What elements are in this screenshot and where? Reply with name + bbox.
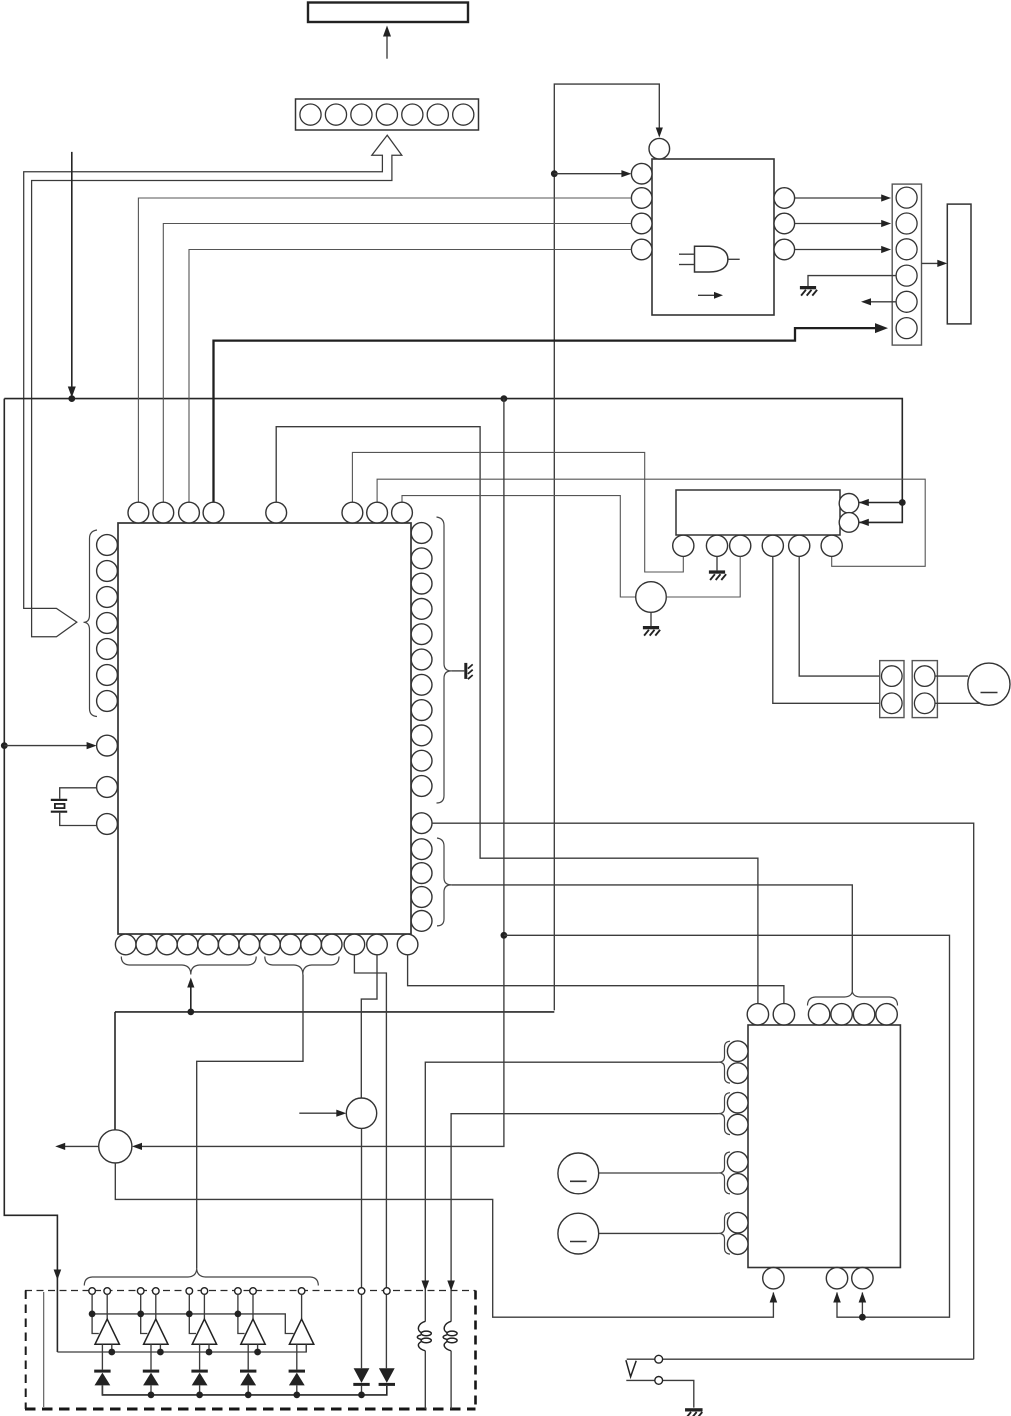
driver bus rail 2 [57, 1344, 306, 1352]
brace U1 bottom pins 1-7 [121, 957, 256, 975]
photo diode D6 [354, 1368, 370, 1383]
driver cell 2 gate stub [155, 1294, 157, 1319]
IC3 top pins [747, 1004, 768, 1025]
wire U1 pin T2 to IC1 L3 [163, 224, 631, 503]
wire main horizontal rail to IC2 pins [4, 399, 902, 523]
brace U1 left pin group [84, 530, 98, 717]
junction dot V1/rail [68, 395, 75, 402]
diode D4 [240, 1370, 256, 1373]
driver cell 1 input stub [92, 1294, 99, 1333]
brace U1 bottom pins 8-11 [265, 957, 339, 975]
arrow into IC3 bottom pin3 [861, 1293, 863, 1318]
driver cell 4 output to diode [247, 1344, 249, 1369]
driver cell 3 gate stub [203, 1294, 205, 1319]
capstan motor M2 [558, 1153, 599, 1194]
IC1 box [652, 159, 774, 315]
driver cell 1 gate terminal [104, 1288, 111, 1295]
driver cell 4 gate terminal [250, 1288, 257, 1295]
inductor L1 (loading coil) [417, 1321, 425, 1351]
junction dot brace arrow [187, 1009, 194, 1016]
diode D4 cathode lead [247, 1385, 249, 1395]
wire arrow to display board [386, 29, 388, 59]
wire IC2 pin B5 to CN3a top [799, 556, 881, 676]
wire arrow into IC2 pin R1 [859, 502, 903, 504]
driver cell 3 output to diode [199, 1344, 201, 1369]
driver cell 2 output to diode [150, 1344, 152, 1369]
driver cell 1 output to diode [101, 1344, 103, 1369]
sensor circle T2 [346, 1098, 376, 1128]
IC2 bottom pins [673, 535, 694, 556]
driver cell 3 gate terminal [201, 1288, 208, 1295]
wire arrow into IC1 pin L1 [554, 173, 628, 175]
junction dot 554/173.7 [551, 170, 558, 177]
jack plug symbol [626, 1360, 636, 1377]
diode D2 cathode lead [150, 1385, 152, 1395]
thick wire key-scan from U1 pin T4 to CN2 pin6 [214, 328, 883, 502]
junction dot x=4.3 branch [1, 742, 8, 749]
arrow CN2 to FFC [922, 262, 942, 264]
driver cell 3 input terminal [186, 1288, 193, 1295]
IC3 bottom pins [763, 1268, 784, 1289]
U1 right single pin [411, 813, 432, 834]
mixer circle (system output) [99, 1130, 132, 1163]
dashed mechanism box [25, 1290, 476, 1292]
crystal X1 [51, 799, 67, 801]
brace IC3 top group [808, 991, 898, 1006]
wire M3 to IC3 group4 [599, 1232, 719, 1234]
U1 bottom pins (3 more) [344, 934, 365, 955]
wire reset line vertical with arrow [71, 152, 73, 395]
ground for U1 right group1 [451, 670, 464, 672]
wire corner to IC3 group1 and inductor L1 [425, 1062, 718, 1321]
diode D5 [289, 1370, 305, 1373]
wire rail down to mixer circle [114, 1012, 116, 1130]
driver cell 3 input stub [189, 1294, 196, 1333]
junction dot IC3 pin3 feed [859, 1314, 866, 1321]
driver cell 4 input terminal [235, 1288, 242, 1295]
wire U1 right single pin to jack [432, 823, 974, 1359]
wire U1 right group2 to IC3 top brace [451, 885, 852, 991]
AND gate inside IC1 [695, 246, 728, 272]
op-amp buffer A3 [192, 1319, 216, 1344]
U1 top pins [128, 502, 149, 523]
driver cell 2 feedback stub [159, 1344, 161, 1352]
wire U1 pin T7 to IC2 pin B6 [377, 479, 925, 566]
wire horizontal rail y=1011.9 [115, 1011, 554, 1013]
wire mixer to IC3 bottom pin1 [115, 1163, 773, 1317]
IC2 box [676, 490, 840, 535]
IC3 left pin pairs [727, 1041, 748, 1062]
connector CN101 (7-pin) [296, 99, 479, 130]
driver cell 1 feedback stub [111, 1344, 113, 1352]
stub arrow into T2 [299, 1112, 341, 1114]
arrow up into brace B1 [190, 980, 192, 1012]
photo diode D7 [379, 1368, 395, 1383]
diode D2 [143, 1370, 159, 1373]
sensor terminal D7 [384, 1288, 391, 1295]
wire jack sleeve to ground [626, 1380, 694, 1407]
U1 left single pins [97, 735, 118, 756]
diode D1 [94, 1370, 110, 1373]
wire V503 vertical net [136, 399, 504, 1147]
IC2 right pins [839, 494, 859, 514]
connector CN3a [880, 661, 904, 718]
ground CN2 pin4 [800, 286, 816, 289]
wires IC1 right pins to CN2 with arrows [795, 197, 888, 199]
brace U1 right pin group1 [437, 517, 452, 803]
wire CN2 pin4 to ground [808, 276, 896, 286]
driver cell 1 gate stub [106, 1294, 108, 1319]
driver cell 5 gate stub [301, 1294, 303, 1319]
IC3 motor-driver box [748, 1025, 900, 1268]
wire IC2 pin B4 to CN3a bottom [773, 556, 882, 703]
drum motor M3 [558, 1213, 599, 1254]
op-amp buffer A5 [289, 1319, 313, 1344]
wire Q1 to IC2 pin B3 [666, 556, 740, 597]
junction dot rail/V503 [501, 395, 508, 402]
diode D3 cathode lead [199, 1385, 201, 1395]
driver cell 2 input terminal [137, 1288, 144, 1295]
wire U1 pin B14 to IC3 top pin2 [408, 955, 784, 1004]
wire U1 pin T1 to IC1 L2 [138, 198, 631, 502]
U1 right pins group2 (4) [411, 839, 432, 860]
driver cell 5 gate terminal [298, 1288, 305, 1295]
display board box [308, 3, 468, 23]
IC1 right pins [774, 188, 795, 209]
driver cell 5 feedback stub [305, 1344, 307, 1352]
driver cell 3 feedback stub [208, 1344, 210, 1352]
AND gate input stubs [679, 253, 695, 255]
ground Q1 [650, 612, 652, 626]
inner gray wire [43, 1292, 45, 1407]
wire arrow into U1 pin L8 [4, 745, 93, 747]
wire U1 pin T6 to IC2 pin B1 [352, 452, 683, 572]
inductor L2 (coil) [443, 1321, 451, 1351]
wire corner to IC3 group2 and inductor L2 [451, 1114, 718, 1322]
wire brace B2 to driver brace [197, 975, 303, 1269]
braces IC3 left pairs [719, 1041, 731, 1083]
IC1 top pin [649, 138, 670, 159]
crystal X1 wiring [60, 788, 97, 799]
wire V503 branch to IC3 bottom pins 2-3 [504, 935, 950, 1317]
wire IC1 supply loop [554, 84, 659, 174]
U1 bottom pins row (11) [115, 934, 136, 955]
wire jack tip line [627, 1358, 974, 1360]
driver cell 1 input terminal [89, 1288, 96, 1295]
stub arrow out of CN2 pin5 [864, 301, 896, 303]
diode return bus [102, 1385, 386, 1395]
wire U1 pin B12 jog to diode D7 [354, 955, 386, 1368]
driver bus rail 1 [92, 1314, 294, 1334]
sensor terminal D6 [358, 1288, 365, 1295]
driver cell 2 gate terminal [153, 1288, 160, 1295]
wire M2 to IC3 group3 [599, 1172, 719, 1174]
brace over driver array [84, 1268, 318, 1286]
wires CN3b to loading motor [935, 675, 968, 677]
AND gate output stub [728, 258, 740, 260]
wire T2 to diode D6 [361, 1128, 363, 1368]
wire left feed vertical x=4.3 [4, 399, 57, 1352]
driver cell 4 feedback stub [257, 1344, 259, 1352]
wire V554 vertical [553, 174, 555, 1011]
arrow out of mixer [60, 1145, 99, 1147]
junction dot V503 branch [501, 932, 508, 939]
jack tip terminal [655, 1355, 663, 1363]
wire U1 pin T5 via right side to IC3 pin1 [276, 427, 758, 1004]
transistor Q1 [636, 582, 667, 613]
diode D1 cathode lead [101, 1385, 103, 1395]
wire U1 pin T8 to Q1 [402, 496, 636, 597]
signal-flow arrow inside IC1 [698, 294, 716, 296]
ground jack [685, 1408, 703, 1411]
FFC strip box [947, 204, 971, 324]
jack sleeve terminal [655, 1377, 663, 1385]
junction dot IC2 pin R1 branch [899, 499, 906, 506]
driver cell 4 gate stub [252, 1294, 254, 1319]
wire U1 pin T3 to IC1 L4 [189, 250, 631, 503]
IC1 left pins [631, 163, 652, 184]
connector CN2 (6-pin) [892, 184, 921, 345]
op-amp buffer A2 [144, 1319, 168, 1344]
U1 right pins group1 (11) [411, 523, 432, 544]
driver cell 2 input stub [141, 1294, 148, 1333]
loading motor M1 [968, 663, 1010, 705]
brace U1 right pin group2 [437, 838, 451, 926]
bus arrow (hollow, CN101 feed from key matrix) [24, 135, 402, 637]
driver cell 4 input stub [238, 1294, 245, 1333]
U1 left pins group (7) [97, 535, 118, 556]
IC2 pin B2 ground [716, 556, 718, 570]
op-amp buffer A4 [241, 1319, 265, 1344]
op-amp buffer A1 [95, 1319, 119, 1344]
wire U1 pin B13 to sensor circle T2 [361, 955, 377, 1098]
main system-control IC U1 [118, 523, 411, 934]
arrow marker into driver array [54, 1270, 62, 1281]
diode D5 cathode lead [296, 1385, 298, 1395]
connector CN3b [912, 661, 937, 718]
diode D3 [191, 1370, 207, 1373]
driver cell 5 output to diode [296, 1344, 298, 1369]
